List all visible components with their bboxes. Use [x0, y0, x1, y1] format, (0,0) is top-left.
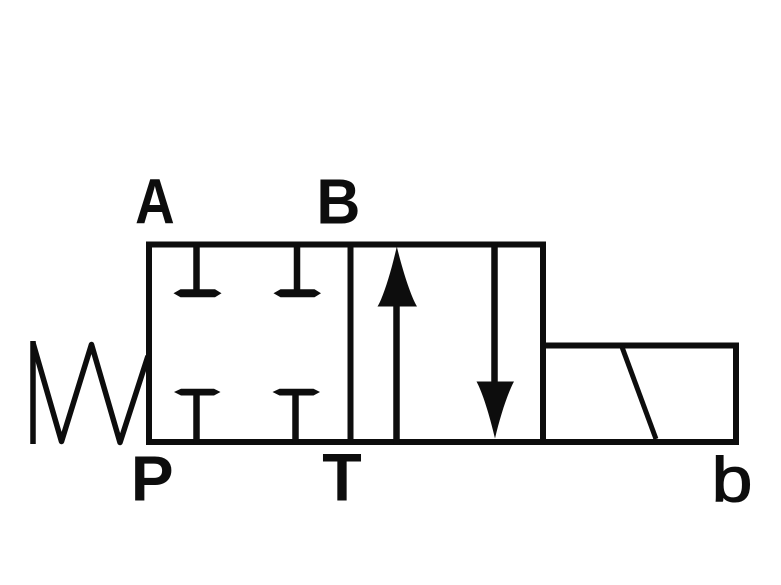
- svg-text:B: B: [316, 166, 360, 238]
- port label T: [322, 440, 361, 516]
- port label A: [135, 165, 175, 237]
- position divider line: [348, 242, 354, 446]
- svg-text:A: A: [135, 165, 175, 237]
- port label P: [131, 443, 174, 515]
- svg-text:b: b: [712, 445, 753, 516]
- svg-text:P: P: [131, 443, 174, 515]
- flow path arrow up (right position box): [378, 247, 418, 445]
- valve envelope (two position boxes outline): [149, 245, 543, 443]
- flow path arrow down (right position box): [477, 242, 515, 439]
- solenoid coil diagonal line: [622, 347, 656, 439]
- port label B: [316, 166, 360, 238]
- spring (return spring, left side): [33, 341, 148, 444]
- solenoid box b (actuator): [543, 346, 736, 443]
- solenoid label b: [712, 445, 753, 516]
- blocked port bottom-right (T side, closed): [273, 389, 321, 443]
- svg-text:T: T: [322, 440, 361, 516]
- blocked port bottom-left (P side, closed): [174, 389, 221, 443]
- blocked port top-left (A side, closed): [174, 243, 222, 297]
- blocked port top-right (B side, closed): [274, 243, 322, 297]
